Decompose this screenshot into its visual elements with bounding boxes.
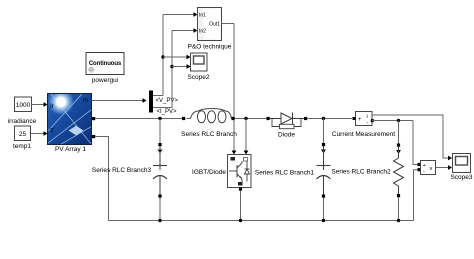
svg-text:Series RLC Branch2: Series RLC Branch2: [331, 169, 391, 176]
wire P&O Out1 to IGBT gate: [222, 24, 237, 155]
node collector tap: [244, 117, 249, 155]
svg-text:-: -: [423, 169, 425, 175]
svg-text:Continuous: Continuous: [89, 61, 122, 67]
wire IGBT emitter down: [239, 188, 242, 221]
wire cap1 to bottom bus: [323, 198, 325, 221]
node bus cap3: [158, 219, 161, 222]
svg-text:Series RLC Branch: Series RLC Branch: [181, 131, 237, 138]
wire PV + rail: [95, 118, 183, 120]
wire PV m to bus selector: [92, 98, 147, 103]
svg-text:+: +: [358, 117, 362, 123]
node bus cap1: [322, 219, 325, 222]
node bus emitter: [239, 219, 242, 222]
node cap1 tap: [322, 117, 325, 143]
node resistor tap: [397, 119, 400, 144]
wire I_PV riser to In2: [153, 28, 198, 107]
wire bottom bus: [109, 220, 414, 222]
wire V_PV riser to In1: [153, 12, 198, 95]
svg-text:25: 25: [19, 131, 27, 138]
svg-text:Series RLC Branch3: Series RLC Branch3: [92, 167, 152, 174]
wire CM i signal to Scope3: [372, 115, 452, 160]
svg-text:Current Measurement: Current Measurement: [332, 131, 395, 138]
wire temp1 to PV T: [31, 131, 48, 136]
wire CM physical out: [372, 120, 413, 122]
IGBT/Diode U1: [192, 155, 251, 188]
svg-text:<V_PV>: <V_PV>: [156, 98, 179, 104]
node bus resistor: [397, 219, 400, 222]
scope Scope2: [187, 53, 209, 81]
svg-text:PV Array 1: PV Array 1: [55, 146, 86, 153]
wire resistor to bottom bus: [398, 197, 400, 220]
current measurement: [353, 112, 374, 127]
svg-text:Diode: Diode: [278, 132, 295, 139]
PV array PV Array 1: [48, 89, 96, 153]
svg-text:Series RLC Branch1: Series RLC Branch1: [255, 170, 315, 177]
wire VM out to Scope3: [436, 165, 453, 170]
svg-text:irradiance: irradiance: [8, 118, 37, 125]
wire PV - down: [95, 137, 108, 221]
subsystem P&O technique: [188, 8, 232, 51]
constant temp1 (25): [13, 126, 31, 150]
svg-text:In2: In2: [199, 29, 206, 35]
svg-text:temp1: temp1: [13, 143, 31, 150]
node V_PV to Scope2: [161, 55, 190, 60]
svg-text:m: m: [83, 97, 88, 104]
svg-text:Scope2: Scope2: [187, 74, 209, 81]
wire VM - riser to bottom bus: [414, 168, 421, 220]
capacitor Series RLC Branch1: [255, 143, 331, 198]
capacitor Series RLC Branch3: [92, 143, 167, 198]
node I_PV to Scope2: [170, 64, 190, 69]
svg-text:v: v: [430, 166, 433, 172]
wire irradiance to PV Ir: [32, 102, 48, 107]
svg-text:-: -: [367, 120, 369, 126]
scope Scope3: [450, 154, 472, 182]
svg-text:P&O technique: P&O technique: [188, 44, 232, 51]
wire VM + riser: [413, 121, 421, 167]
diode D1: [267, 113, 308, 139]
inductor Series RLC Branch: [181, 109, 237, 138]
resistor Series RLC Branch2: [331, 144, 403, 198]
svg-text:Scope3: Scope3: [450, 174, 472, 181]
svg-text:T: T: [50, 128, 54, 135]
node cap3 tap: [158, 117, 161, 143]
voltage measurement: [421, 161, 436, 176]
svg-text:In1: In1: [199, 13, 206, 19]
constant irradiance (1000): [8, 97, 37, 125]
svg-text:1000: 1000: [16, 102, 31, 109]
svg-text:Out1: Out1: [209, 22, 220, 28]
bus selector: [149, 91, 153, 113]
svg-text:<I_PV>: <I_PV>: [157, 109, 178, 115]
wire cap3 to bottom bus: [159, 198, 161, 221]
powergui block: [86, 53, 124, 85]
wire inductor to diode: [235, 118, 267, 120]
wire diode to current measurement: [307, 118, 352, 120]
svg-text:powergui: powergui: [92, 77, 118, 84]
svg-text:IGBT/Diode: IGBT/Diode: [192, 169, 226, 176]
